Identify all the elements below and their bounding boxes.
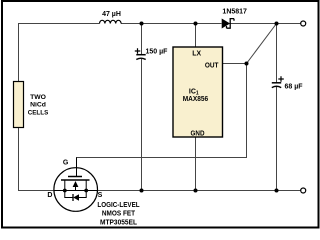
svg-text:NMOS FET: NMOS FET [102,209,136,218]
svg-text:OUT: OUT [205,60,219,69]
svg-text:LX: LX [192,48,201,57]
svg-text:MTP3055EL: MTP3055EL [100,218,137,227]
svg-text:47 µH: 47 µH [102,11,121,18]
svg-text:1N5817: 1N5817 [222,9,247,16]
svg-text:LOGIC-LEVEL: LOGIC-LEVEL [97,200,140,209]
svg-text:GND: GND [191,129,205,138]
svg-text:S: S [98,192,103,199]
svg-text:NiCd: NiCd [30,102,46,109]
svg-text:CELLS: CELLS [28,109,49,116]
svg-text:G: G [63,160,69,167]
svg-text:TWO: TWO [30,94,46,101]
svg-text:150 µF: 150 µF [146,49,169,56]
svg-text:D: D [47,192,52,199]
svg-text:MAX856: MAX856 [183,94,208,103]
svg-text:68 µF: 68 µF [285,84,304,91]
